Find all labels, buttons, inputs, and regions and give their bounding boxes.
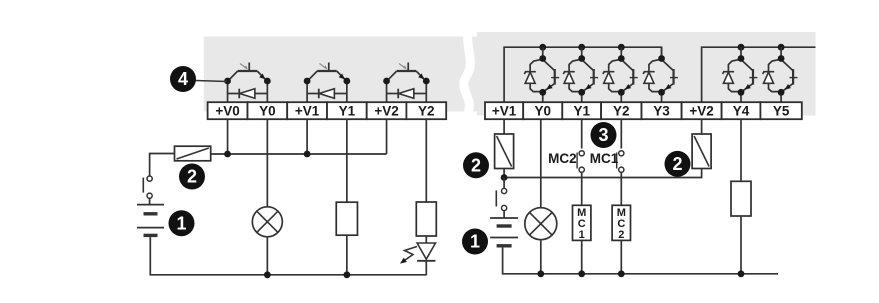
svg-text:1: 1: [579, 229, 585, 241]
lamp L2: [525, 208, 557, 240]
junction fuse/common bus: [501, 174, 508, 181]
svg-text:Y1: Y1: [573, 103, 590, 118]
contact MC2 (normally-closed interlock): [576, 153, 578, 169]
callout 3 : interlock contacts: [591, 122, 617, 148]
wire: LED to return bus end: [425, 261, 427, 275]
wire: resistor to return bus: [740, 216, 742, 274]
wire: fuse to switch: [150, 154, 175, 177]
LED series resistor R2: [416, 202, 436, 236]
junction R3/return bus: [738, 270, 745, 277]
wire: fuse F2 to common bus: [503, 169, 505, 178]
callout 2 : fuse (left of F3): [665, 151, 691, 177]
transistor Q14 (Y4) internal sink-transistor output with free-wheel diode: [723, 47, 758, 104]
transistor Q0 (Y0) internal source-transistor output: [224, 63, 271, 105]
switch S1: [142, 178, 144, 193]
output module body (left, source type): [204, 37, 478, 112]
callout 1 : battery: [169, 210, 195, 236]
svg-text:4: 4: [178, 69, 188, 89]
terminal block left: +V0 Y0 +V1 Y1 +V2 Y2: [208, 102, 447, 119]
svg-text:1: 1: [176, 213, 186, 233]
wire: right +V common bus: [504, 169, 701, 178]
junction lamp/return bus: [264, 271, 271, 278]
wire: left +V supply bus: [211, 153, 387, 155]
terminal block right: +V1 Y0 Y1 Y2 Y3 +V2 Y4 Y5: [485, 102, 802, 119]
svg-text:Y3: Y3: [653, 103, 670, 118]
load resistor R1: [336, 202, 357, 235]
wire: switch to battery: [149, 198, 151, 204]
svg-text:1: 1: [470, 232, 480, 252]
transistor Q15 (Y5) internal sink-transistor output with free-wheel diode: [763, 47, 798, 104]
battery B2 (load power supply): [490, 217, 518, 219]
svg-text:Y0: Y0: [259, 103, 276, 118]
svg-text:2: 2: [672, 154, 682, 174]
svg-text:+V2: +V2: [374, 103, 398, 118]
wire: resistor to LED: [425, 236, 427, 243]
svg-text:Y4: Y4: [733, 103, 750, 118]
contactor coil MC2: [612, 205, 630, 240]
svg-text:3: 3: [598, 125, 608, 145]
contactor coil MC1: [573, 205, 591, 240]
junction dots on +V1 bus: [539, 44, 546, 51]
wire: Y4 to load resistor: [740, 119, 742, 181]
wire: battery to bottom return bus: [503, 248, 778, 274]
LED D1: [417, 243, 435, 259]
wire: MC2 coil to return bus: [620, 240, 622, 273]
wire: Y0 to lamp: [266, 119, 268, 207]
wire: resistor to return bus: [346, 235, 348, 275]
wire: +V2 feed bus over Y4-Y5: [702, 47, 816, 104]
svg-text:2: 2: [471, 156, 481, 176]
transistor Q10 (Y0) internal sink-transistor output with free-wheel diode: [524, 47, 559, 104]
transistor Q11 (Y1) internal sink-transistor output with free-wheel diode: [563, 47, 598, 104]
wire: lamp to return bus: [266, 237, 268, 275]
wire: +V1 feed bus over Y0-Y3: [504, 47, 661, 104]
svg-text:MC2: MC2: [548, 151, 577, 166]
fuse F3: [692, 134, 711, 169]
wire: Y1 to load resistor: [346, 119, 348, 202]
transistor Q2 (Y2) internal source-transistor output: [383, 63, 430, 105]
svg-text:Y0: Y0: [534, 103, 551, 118]
junction lamp/return bus: [537, 270, 544, 277]
wire: +V2 down to supply bus: [386, 119, 388, 154]
junction dots on +V2 bus: [738, 44, 745, 51]
callout 4 : internal circuit pointer: [196, 81, 228, 82]
svg-text:+V1: +V1: [492, 103, 517, 118]
page tear between modules: [463, 22, 472, 126]
wire: contact to MC2 coil (crosses bus): [620, 172, 622, 205]
fuse F2: [495, 134, 514, 169]
wire: +V1 to fuse F2: [503, 119, 505, 134]
callout 1 : battery: [462, 229, 488, 255]
svg-text:Y5: Y5: [773, 103, 790, 118]
wire: MC1 coil to return bus: [581, 240, 583, 273]
lamp L1: [252, 207, 282, 237]
load resistor R3: [731, 181, 751, 216]
svg-text:MC1: MC1: [590, 151, 619, 166]
svg-text:2: 2: [187, 167, 197, 187]
output module body (right, sink type): [477, 32, 816, 116]
wire: contact to MC1 coil (crosses bus): [581, 172, 583, 205]
callout 2 : fuse: [179, 164, 205, 190]
svg-text:+V0: +V0: [215, 103, 239, 118]
wire: Y2 to MC1 interlock contact: [620, 119, 622, 148]
junction MC1/return bus: [578, 270, 585, 277]
junction resistor/return bus: [343, 271, 350, 278]
wire: Y0 to lamp: [540, 119, 542, 207]
callout 2 : fuse (left of F2): [463, 152, 489, 178]
fuse F1: [175, 146, 211, 161]
transistor Q13 (Y3) internal sink-transistor output with free-wheel diode: [643, 47, 678, 104]
junction MC2/return bus: [618, 270, 625, 277]
LED indication arrow: [402, 247, 418, 263]
switch S2: [495, 190, 497, 206]
wire: lamp to return bus: [540, 240, 542, 274]
contact MC1 (normally-closed interlock): [616, 153, 618, 169]
wire: battery to bottom return bus: [150, 237, 427, 275]
wire: Y2 to LED resistor: [425, 119, 427, 202]
battery B1 (load power supply): [137, 204, 164, 206]
wire: +V0 down to supply bus: [227, 119, 229, 154]
wire: Y1 to MC2 interlock contact: [581, 119, 583, 148]
transistor Q12 (Y2) internal sink-transistor output with free-wheel diode: [603, 47, 638, 104]
svg-text:Y2: Y2: [613, 103, 630, 118]
junction +V1/bus: [304, 151, 311, 158]
svg-text:+V1: +V1: [295, 103, 320, 118]
svg-text:+V2: +V2: [689, 103, 713, 118]
svg-text:Y1: Y1: [339, 103, 356, 118]
transistor Q1 (Y1) internal source-transistor output: [304, 63, 351, 105]
junction +V0/bus: [224, 151, 231, 158]
wire: switch to battery: [503, 211, 505, 218]
svg-text:2: 2: [618, 229, 624, 241]
svg-text:Y2: Y2: [418, 103, 435, 118]
wire: +V2 to fuse F3: [701, 119, 703, 134]
wire: +V1 down to supply bus: [306, 119, 308, 154]
